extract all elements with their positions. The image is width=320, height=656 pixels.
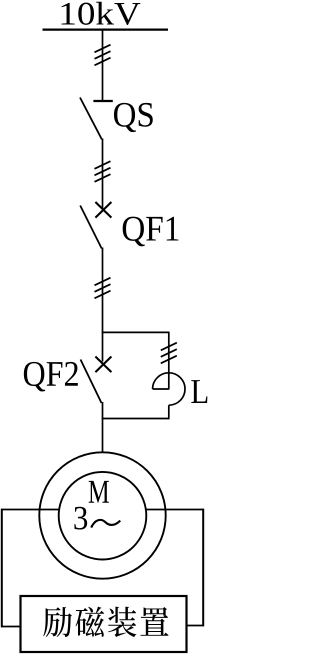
label L <box>191 380 207 403</box>
wire branch node to QF2 <box>102 332 104 361</box>
excitation device box <box>21 596 187 652</box>
motor tilde <box>91 520 120 528</box>
box label char 置 <box>140 607 168 636</box>
wire motor left lead <box>2 509 60 511</box>
wire branch node to reactor branch <box>102 331 169 333</box>
label QS <box>114 103 153 132</box>
label QF1 <box>123 217 179 247</box>
conductor hash marks 2 <box>95 161 111 169</box>
wire reactor to bottom loop <box>168 405 170 419</box>
label 10kV <box>62 2 141 25</box>
wire left down <box>1 509 3 628</box>
disconnector QS fixed contact bar <box>93 100 112 102</box>
motor M outer circle <box>39 452 165 578</box>
conductor hash marks 3 <box>95 278 111 286</box>
wire left to box <box>2 626 21 628</box>
conductor hash marks 1 <box>95 45 111 53</box>
disconnector QS blade <box>80 98 102 140</box>
breaker QF1 blade <box>80 206 102 249</box>
busbar 10kV <box>43 29 169 31</box>
motor digit 3 <box>74 507 87 530</box>
conductor hash marks 4 <box>161 343 177 351</box>
box label char 装 <box>108 607 136 638</box>
wire QF1 to branch node <box>102 248 104 334</box>
wire bottom loop to main line <box>102 418 169 420</box>
wire QF2 to motor <box>102 402 104 453</box>
motor M inner circle <box>59 472 147 560</box>
breaker QF2 blade <box>81 360 102 404</box>
motor letter M <box>89 481 109 503</box>
box label char 励 <box>43 607 72 637</box>
wire busbar to QS <box>102 30 104 100</box>
wire reactor branch down <box>168 332 170 390</box>
wire right down <box>202 509 204 627</box>
wire QS to QF1 <box>102 139 104 210</box>
wire right to box <box>186 625 203 627</box>
breaker QF1 contact cross <box>95 202 111 218</box>
label QF2 <box>24 362 78 392</box>
wire motor right lead <box>146 509 204 511</box>
reactor L arc <box>153 373 185 405</box>
reactor L radius line <box>153 388 169 390</box>
breaker QF2 contact cross <box>95 357 111 373</box>
box label char 磁 <box>76 607 105 637</box>
